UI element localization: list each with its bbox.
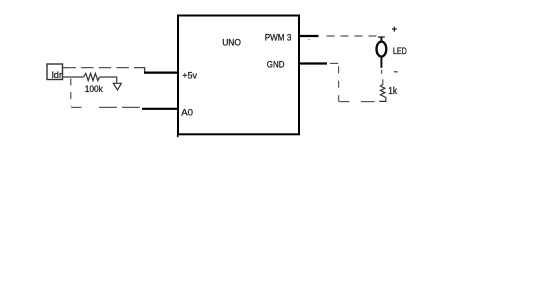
wire dashed horizontal to A0 <box>71 106 82 108</box>
wire dash GND out <box>330 62 338 64</box>
wire ldr top stub <box>63 67 67 69</box>
wire dashed ldr to +5v <box>64 67 136 69</box>
wire dash bottom 2 <box>361 101 375 103</box>
wire ldr lower lead <box>63 76 84 78</box>
wire dashed PWM3 to LED <box>327 35 378 37</box>
wire A0 pin <box>142 108 178 110</box>
wire LED bottom lead <box>380 57 382 68</box>
svg-text:PWM 3: PWM 3 <box>265 32 292 43</box>
wire dash below LED <box>381 70 383 74</box>
LED D1 <box>377 42 387 57</box>
resistor R2 1k <box>379 84 386 102</box>
wire dash 3 <box>122 106 140 108</box>
node LED anode tick <box>378 36 385 38</box>
svg-text:+5v: +5v <box>182 70 197 81</box>
wire GND pin <box>299 62 327 64</box>
box corner overshoot <box>177 134 179 137</box>
svg-text:UNO: UNO <box>222 37 241 48</box>
wire resistor to arrow <box>100 77 117 83</box>
stray dot <box>309 39 311 40</box>
svg-text:GND: GND <box>267 59 285 70</box>
wire dash above 1k <box>382 79 384 84</box>
svg-text:1k: 1k <box>388 86 398 97</box>
svg-text:100k: 100k <box>85 84 103 95</box>
wire dashed vertical GND <box>338 66 340 101</box>
wire PWM3 pin <box>299 35 319 37</box>
svg-text:+: + <box>392 24 397 34</box>
resistor R1 100k <box>84 73 100 80</box>
wire dash bottom 1 <box>339 101 350 103</box>
wire LED top lead <box>380 37 382 42</box>
op-board UNO U1 <box>178 16 299 135</box>
svg-text:A0: A0 <box>181 108 193 119</box>
polarity - <box>394 71 398 73</box>
photoresistor LDR box <box>47 64 63 80</box>
svg-text:LED: LED <box>393 46 407 56</box>
wire +5v pin <box>144 71 178 73</box>
wire dash 2 <box>99 106 117 108</box>
wire dashed vertical from ldr node <box>70 79 72 107</box>
ground arrow symbol <box>113 83 121 90</box>
wire step into +5v pin <box>135 68 145 73</box>
svg-text:ldr: ldr <box>52 70 62 81</box>
